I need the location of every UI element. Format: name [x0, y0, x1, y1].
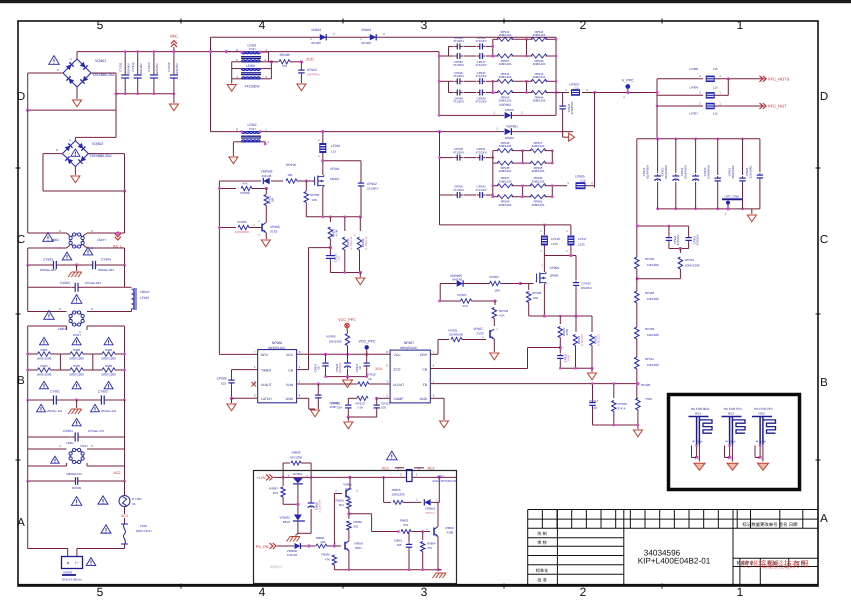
wire grid left bus lower [439, 132, 441, 225]
svg-text:LF915: LF915 [140, 296, 149, 300]
svg-text:20M/1206: 20M/1206 [499, 203, 512, 207]
svg-text:CB: CB [422, 368, 427, 372]
winding 1 [242, 51, 261, 53]
wire AC rail top [77, 51, 439, 53]
ground of HS1 [694, 463, 705, 470]
capacitor CP906 [454, 194, 457, 196]
capacitor CP932 [477, 194, 480, 196]
inductor LF910 L15 [322, 132, 324, 143]
capacitor CP924 [454, 45, 457, 47]
svg-text:TO-3P: TO-3P [729, 441, 736, 444]
diode VD9851 vertical [293, 478, 303, 483]
svg-text:18N50: 18N50 [330, 177, 339, 181]
svg-text:105: 105 [397, 543, 402, 547]
wire drain to CP962 [323, 160, 361, 162]
diode VDP903 [263, 178, 269, 184]
svg-text:150P: 150P [329, 405, 336, 409]
ground of HS3 [758, 463, 769, 470]
capacitor CP915 [657, 139, 659, 173]
svg-text:37K-F: 37K-F [618, 407, 626, 411]
resistor R9850 [316, 544, 327, 548]
wire LF915 bottom [131, 309, 133, 312]
svg-text:R906: R906 [105, 364, 113, 368]
warning + labels CY row2 [37, 404, 46, 411]
wire grid right bus upper [555, 37, 557, 115]
svg-text:RP906: RP906 [237, 220, 247, 224]
svg-text:5: 5 [97, 18, 104, 32]
svg-text:VDP901: VDP901 [506, 125, 518, 129]
svg-text:1: 1 [737, 585, 744, 599]
svg-text:471/2KV: 471/2KV [453, 63, 464, 67]
svg-text:1R: 1R [358, 366, 362, 370]
svg-text:RP908: RP908 [280, 53, 290, 57]
svg-text:150uH: 150uH [140, 290, 150, 294]
resistor RP923 [520, 283, 528, 285]
V9851 emitter up [349, 477, 351, 489]
svg-text:RP909: RP909 [645, 327, 655, 331]
heatsink box [669, 395, 800, 490]
svg-text:471/2KV: 471/2KV [476, 100, 487, 104]
resistor RP914 [531, 37, 547, 41]
svg-text:VQ901: VQ901 [95, 59, 106, 63]
resistor RP905 [345, 334, 349, 346]
capacitor CP937 [325, 354, 327, 361]
svg-text:470R: 470R [565, 329, 569, 336]
LF902 winding 2 [242, 141, 261, 143]
VP903 emitter to ground [265, 233, 267, 240]
svg-text:LP908: LP908 [689, 67, 698, 71]
svg-text:5K1: 5K1 [403, 523, 409, 527]
wire CB branch left [309, 247, 331, 249]
wire CB [297, 369, 309, 371]
svg-text:RP902: RP902 [240, 191, 250, 195]
svg-text:20M/1206: 20M/1206 [499, 75, 512, 79]
svg-text:471/2KV: 471/2KV [453, 100, 464, 104]
svg-text:750K: 750K [645, 397, 652, 401]
wire bus x594.5 [594, 93, 596, 186]
winding 3 [242, 68, 261, 70]
wire FB bottom rail [593, 424, 638, 426]
ground bank [751, 209, 753, 214]
svg-text:R9851: R9851 [335, 499, 344, 503]
svg-text:S1S2: S1S2 [476, 332, 484, 336]
svg-text:L15: L15 [713, 86, 718, 90]
svg-text:T25XB80-25A: T25XB80-25A [92, 73, 115, 77]
resistor RP944 [531, 91, 547, 95]
resistor RP965 [530, 161, 546, 165]
ground below VQ901 [76, 87, 78, 99]
svg-text:20M/1206: 20M/1206 [532, 203, 545, 207]
svg-text:471/2KV: 471/2KV [476, 39, 487, 43]
svg-text:1M/1206: 1M/1206 [647, 297, 659, 301]
bridge rectifier VQ902 [62, 141, 88, 167]
svg-text:3906: 3906 [345, 487, 352, 491]
ground CP938 [311, 410, 320, 417]
svg-text:VP907: VP907 [473, 327, 483, 331]
svg-text:D: D [820, 91, 828, 103]
svg-text:3: 3 [421, 18, 428, 32]
wire VCC rail [297, 353, 391, 355]
ground below transformer [227, 85, 236, 92]
capacitor CY912 [137, 52, 139, 75]
svg-text:275Vac-224: 275Vac-224 [85, 281, 101, 285]
title block table [528, 509, 818, 511]
svg-text:1M/1206: 1M/1206 [647, 263, 659, 267]
svg-text:560K/1206: 560K/1206 [69, 373, 84, 377]
resistor RP952 [530, 195, 546, 199]
resistor RP913 [497, 37, 513, 41]
LF902 core [241, 135, 261, 137]
svg-text:HS2: HS2 [728, 411, 734, 415]
row y92.5 caps CP948/CP949 + RP943/RP944 [449, 92, 454, 94]
wire NP907 CB [430, 368, 527, 370]
wire CY901/902 row [28, 399, 51, 401]
svg-text:TIMER: TIMER [261, 369, 272, 373]
svg-text:LP917: LP917 [578, 237, 587, 241]
svg-text:VCC: VCC [394, 353, 402, 357]
capacitor CP933 [477, 45, 480, 47]
capacitor CP941 [688, 226, 690, 236]
resistor RP951 [679, 249, 681, 254]
svg-text:VCC_PFC: VCC_PFC [338, 318, 356, 322]
svg-text:250Vac-221: 250Vac-221 [98, 268, 114, 272]
capacitor CP912 [347, 398, 349, 403]
wire VP907 base row [438, 339, 449, 341]
svg-text:⊢: ⊢ [75, 561, 79, 566]
IC NP906 MHQ5118C [258, 350, 297, 403]
svg-text:5K1: 5K1 [354, 525, 360, 529]
wire I/LIN row [297, 383, 358, 385]
capacitor C9860 [310, 477, 312, 501]
resistor R9852 [347, 521, 351, 530]
svg-text:R9868: R9868 [292, 451, 301, 455]
svg-text:E-1501/12: E-1501/12 [349, 236, 353, 249]
svg-text:250V-T6AH: 250V-T6AH [136, 529, 152, 533]
IC NP907 MHQ5018C [390, 350, 430, 403]
svg-text:2: 2 [580, 585, 587, 599]
svg-text:RP905: RP905 [489, 275, 499, 279]
svg-text:LP907: LP907 [689, 112, 698, 116]
svg-text:LF910: LF910 [331, 144, 340, 148]
wire LF910 to drain [322, 153, 324, 175]
svg-text:471/2KV: 471/2KV [453, 74, 464, 78]
resistor RP924 [461, 299, 472, 303]
svg-text:V9862: V9862 [445, 526, 454, 530]
ground NP907 [440, 421, 449, 428]
row RP947/RP948 + LP905 [493, 185, 499, 187]
resistor RP915 vertical [265, 189, 267, 195]
svg-text:XS901: XS901 [63, 571, 73, 575]
svg-text:L15: L15 [573, 87, 578, 91]
LF902 winding 1 [242, 131, 261, 133]
warning symbols above CY caps [62, 252, 72, 260]
svg-text:ZCD: ZCD [375, 367, 382, 371]
wire grid left bus upper [438, 52, 440, 116]
earth standby left [296, 533, 298, 535]
svg-text:5K1: 5K1 [339, 503, 345, 507]
svg-text:PFC300W: PFC300W [245, 85, 260, 89]
svg-text:101/2KV: 101/2KV [581, 286, 593, 290]
wire sub rail bottom [669, 248, 689, 250]
svg-text:KIP+L400E04B2-01: KIP+L400E04B2-01 [638, 557, 711, 566]
svg-text:RP904: RP904 [645, 257, 655, 261]
svg-text:CY913: CY913 [147, 62, 151, 72]
warning symbol below CX902 [71, 295, 82, 304]
wire standby bottom rail [334, 569, 441, 571]
resistor RP909 [636, 303, 638, 327]
svg-text:471/2KV: 471/2KV [476, 188, 487, 192]
svg-text:47K: 47K [325, 558, 330, 562]
capacitor CP905 [454, 157, 457, 159]
svg-text:V_PFC: V_PFC [622, 79, 634, 83]
capacitor CP946b [668, 226, 670, 236]
varistor RV901 [27, 466, 29, 481]
row RP945/RP965 [493, 162, 499, 164]
wire LP903 row y92.5 to V_PFC [556, 92, 569, 94]
resistor R9868 bypass [282, 463, 284, 477]
diode VDP905 [457, 280, 463, 286]
svg-text:680P: 680P [567, 355, 571, 362]
svg-text:ZCO: ZCO [394, 368, 401, 372]
resistor RP921 [451, 337, 462, 341]
svg-text:PFC_HOTS: PFC_HOTS [768, 77, 790, 82]
svg-text:CX916: CX916 [167, 62, 171, 72]
inductor LP907 row [657, 105, 703, 107]
resistor R9860 [401, 530, 411, 534]
mosfet VF901 [314, 177, 316, 186]
resistor RP917 [530, 149, 546, 153]
svg-text:AC2: AC2 [114, 471, 121, 475]
capacitor CP938 [317, 384, 319, 393]
resistor RP904 [635, 257, 639, 269]
gate drive row y=283.5 [440, 283, 456, 285]
svg-text:220R/0805: 220R/0805 [449, 333, 464, 337]
warning above R903 [104, 337, 113, 344]
svg-text:7.5k: 7.5k [357, 406, 363, 410]
resistor RP928 [531, 54, 547, 58]
warning below R904 [40, 381, 49, 388]
svg-text:审 核: 审 核 [537, 540, 547, 545]
svg-text:S1S2: S1S2 [270, 230, 278, 234]
wire VF901 source down [322, 187, 324, 217]
svg-text:IN5406: IN5406 [311, 41, 321, 45]
resistor R901 [38, 352, 51, 356]
svg-text:HS1: HS1 [695, 411, 701, 415]
svg-text:LM02: LM02 [58, 327, 66, 331]
svg-text:15mH: 15mH [73, 333, 81, 337]
wire bridge2 left loop [43, 153, 63, 155]
svg-text:20M/1206: 20M/1206 [499, 144, 512, 148]
resistor R906 [102, 368, 115, 372]
svg-text:JC2114P 5VDC1H: JC2114P 5VDC1H [432, 479, 456, 483]
resistor RP913c [357, 396, 368, 400]
svg-text:I/LOUT: I/LOUT [394, 383, 405, 387]
svg-text:20M/1206: 20M/1206 [499, 169, 512, 173]
svg-text:D: D [17, 91, 25, 103]
wire choke bottom row [28, 247, 67, 249]
resistor R905 [70, 368, 83, 372]
warning below R906 [104, 381, 113, 388]
svg-text:50uH: 50uH [80, 444, 87, 448]
resistor R9851 [349, 499, 351, 501]
inductor LP909 row [657, 94, 703, 96]
svg-text:250Vac-101: 250Vac-101 [101, 409, 117, 413]
svg-text:A: A [17, 517, 25, 529]
svg-text:RP903: RP903 [310, 193, 320, 197]
svg-text:F910: F910 [140, 524, 147, 528]
svg-text:CX901: CX901 [63, 429, 73, 433]
svg-text:47K: 47K [282, 64, 287, 68]
V9850 collector [348, 538, 350, 541]
wire sense rail y=316 [529, 315, 592, 317]
svg-text:471/2KV: 471/2KV [476, 74, 487, 78]
net port PFC_HOTS [760, 76, 763, 82]
svg-text:E-0R22/1: E-0R22/1 [597, 334, 601, 346]
capacitor CY913 [153, 52, 155, 75]
wire row to choke2 [27, 287, 29, 311]
row y56 caps CP946/CP947 + RP907/RP928 [439, 55, 454, 57]
ground sense [591, 368, 593, 372]
svg-text:IN5406: IN5406 [361, 41, 371, 45]
row y=301 [440, 300, 461, 302]
svg-text:MHQ5018C: MHQ5018C [400, 346, 418, 350]
svg-text:101/2KV: 101/2KV [367, 187, 379, 191]
svg-text:LM01: LM01 [66, 441, 74, 445]
svg-text:MHQ5118C: MHQ5118C [268, 346, 286, 350]
wire NP907 GND [430, 397, 444, 399]
core B [241, 72, 261, 74]
svg-text:IN4148: IN4148 [262, 174, 272, 178]
wire chain sub rail y=226 [637, 225, 688, 227]
svg-text:39M/50V: 39M/50V [338, 362, 342, 373]
svg-text:VF901: VF901 [330, 167, 340, 171]
diode VD9850 [295, 543, 301, 549]
V9862 emitter [437, 537, 439, 570]
connector K901 fuse [407, 470, 413, 482]
wire comp bottom rail [348, 416, 376, 418]
zener VD9852 [294, 515, 302, 521]
resistor R902 [70, 352, 83, 356]
resistor RP911 [636, 339, 638, 357]
svg-text:RV901: RV901 [72, 486, 81, 490]
row RP913/RP914 [493, 38, 499, 40]
svg-text:VAC: VAC [170, 34, 178, 39]
capacitor CP946 [454, 55, 457, 57]
inductor LP917 [570, 225, 572, 235]
core A [241, 56, 261, 58]
svg-text:5: 5 [97, 585, 104, 599]
svg-text:3: 3 [421, 585, 428, 599]
svg-text:R T901: R T901 [132, 497, 142, 501]
wire PS_ON row [277, 545, 294, 547]
svg-text:4100: 4100 [447, 531, 454, 535]
svg-text:82uF/450V: 82uF/450V [684, 165, 688, 179]
svg-text:R9852: R9852 [354, 520, 363, 524]
svg-text:472/2KV: 472/2KV [696, 235, 700, 246]
svg-text:CY912: CY912 [131, 62, 135, 72]
wire driver bus x=219.4 [218, 181, 220, 354]
svg-text:471/2KV: 471/2KV [476, 63, 487, 67]
capacitor CP949 [477, 92, 480, 94]
svg-text:75uH: 75uH [248, 47, 255, 51]
svg-text:AC2: AC2 [428, 466, 435, 470]
svg-text:560K/1206: 560K/1206 [69, 357, 84, 361]
svg-text:20M/1206: 20M/1206 [533, 99, 546, 103]
warning symbol left of choke2 [44, 311, 55, 320]
svg-text:473M/50V: 473M/50V [570, 101, 574, 114]
svg-text:100K/1206: 100K/1206 [685, 264, 700, 268]
svg-text:2P1N-3.96mm: 2P1N-3.96mm [62, 578, 82, 582]
svg-text:250Vac-221: 250Vac-221 [40, 268, 56, 272]
svg-text:R9867: R9867 [269, 487, 278, 491]
jog to base row [349, 513, 372, 515]
top black bar [0, 0, 851, 3]
capacitor CY902 [98, 399, 101, 401]
earth below CY row2 [76, 400, 78, 408]
svg-text:PFC_HOT: PFC_HOT [768, 104, 787, 109]
svg-text:75uH: 75uH [248, 127, 255, 131]
svg-text:C: C [820, 234, 828, 246]
svg-text:B5V6: B5V6 [283, 520, 290, 524]
svg-text:CY901: CY901 [50, 390, 60, 394]
svg-text:220R/0805: 220R/0805 [235, 230, 250, 234]
svg-text:R903: R903 [105, 348, 113, 352]
ground below RP938 [359, 273, 361, 278]
svg-text:471/2KV: 471/2KV [453, 150, 464, 154]
wire NP907 FB [430, 383, 638, 385]
mosfet VP904 [543, 256, 545, 268]
svg-text:47R: 47R [462, 304, 468, 308]
earth standby right [438, 569, 441, 571]
resistor RP906 base [238, 225, 249, 229]
svg-text:471/2KV: 471/2KV [453, 39, 464, 43]
svg-text:165M/450V: 165M/450V [707, 165, 711, 179]
resistor RP905g [490, 281, 501, 285]
svg-text:4: 4 [259, 18, 266, 32]
capacitor CP925 [759, 139, 761, 172]
connector XS901 [62, 557, 83, 569]
capacitor CP947 [477, 55, 480, 57]
wire top boost diode row [211, 36, 557, 38]
svg-text:原理图 b: 原理图 b [270, 565, 282, 569]
svg-text:VDP902: VDP902 [499, 103, 511, 107]
wire bridge2 right [88, 153, 124, 155]
svg-text:L15: L15 [713, 112, 718, 116]
inductor LP918 [543, 225, 545, 235]
row RP949/RP952 [493, 196, 499, 198]
resistor RP948 [530, 184, 546, 188]
capacitor CP936 [329, 254, 331, 256]
wire bridge1 top stub [76, 52, 78, 59]
inductor LP903 [571, 89, 580, 96]
wire TIMER [232, 369, 258, 371]
resistor RP919 [591, 316, 593, 332]
svg-text:E-0R22/1: E-0R22/1 [580, 334, 584, 346]
svg-text:TO-3P: TO-3P [696, 441, 703, 444]
transistor V9851 [345, 490, 347, 498]
svg-text:LF950: LF950 [246, 64, 255, 68]
svg-text:16R: 16R [271, 197, 275, 202]
ground below CX916 [173, 94, 175, 103]
svg-text:PS_ON: PS_ON [256, 545, 269, 549]
wire right bus down to choke row [124, 191, 126, 233]
warning below RV901 [71, 497, 82, 506]
svg-text:R904: R904 [40, 364, 48, 368]
svg-text:VD9852: VD9852 [280, 516, 291, 520]
resistor RP938 [359, 217, 361, 231]
svg-text:RP920: RP920 [618, 402, 628, 406]
svg-text:471/2KV: 471/2KV [453, 188, 464, 192]
